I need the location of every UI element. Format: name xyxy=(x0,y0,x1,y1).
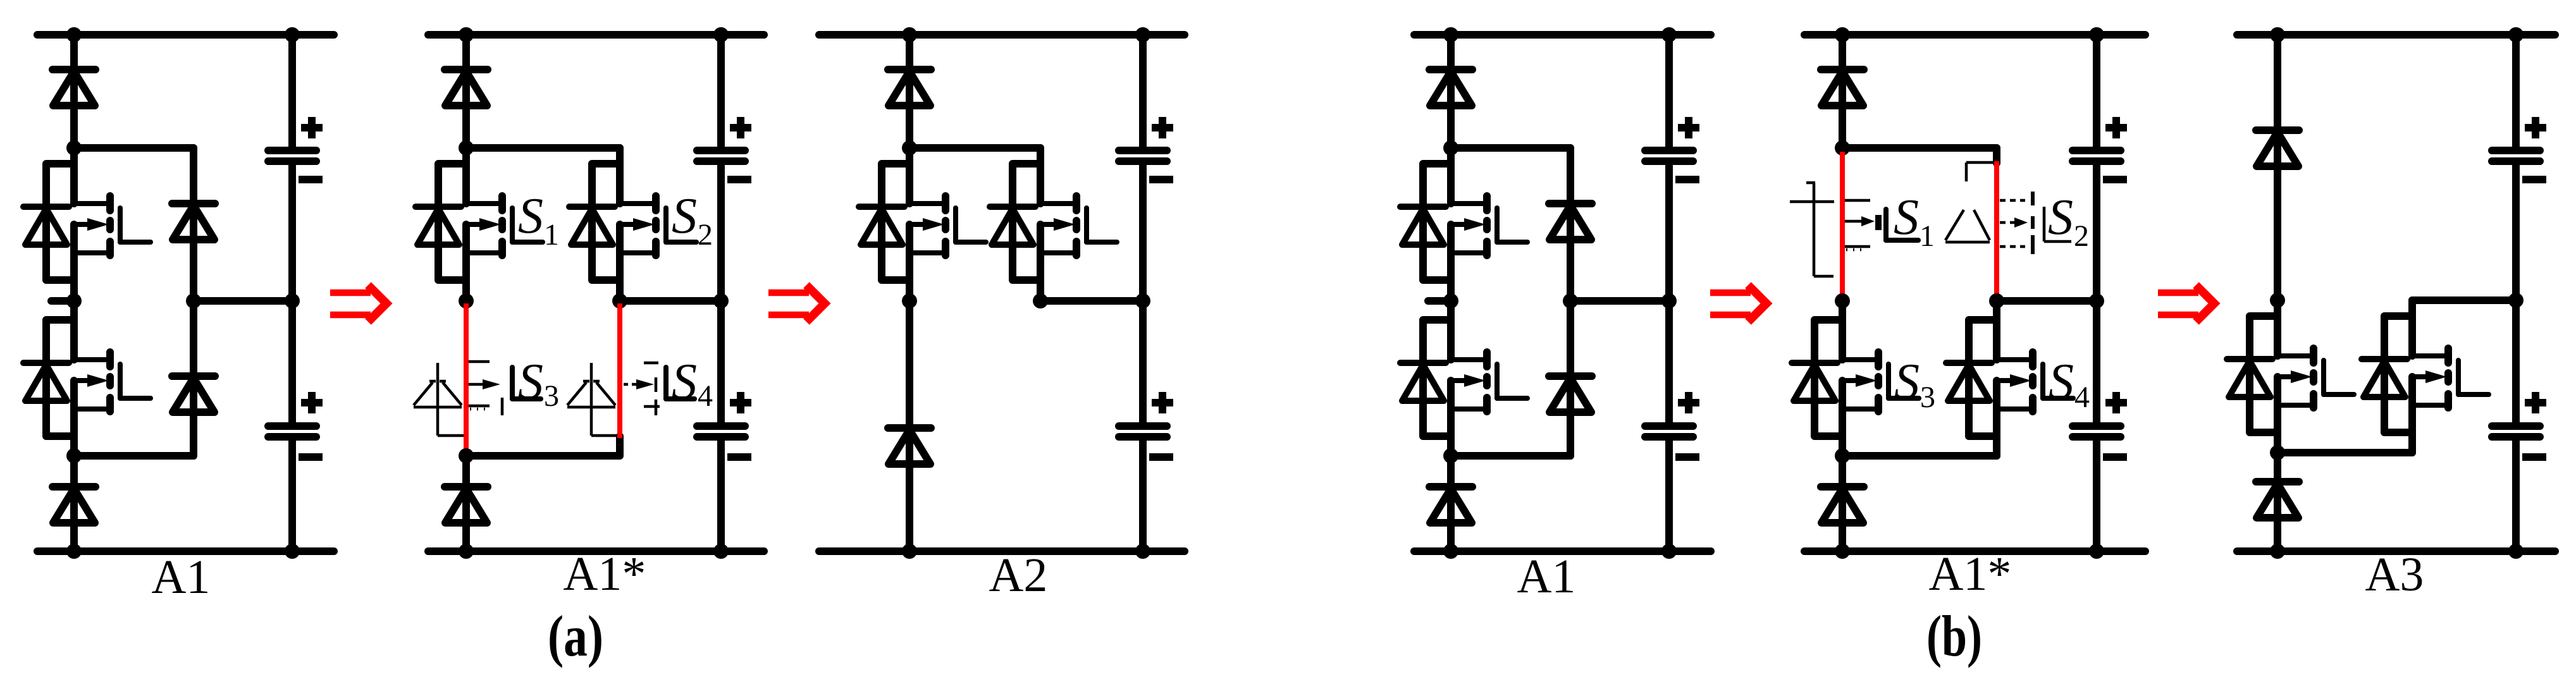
MOSFET cell right (A2) xyxy=(990,148,1117,301)
node mid S2 (A1* (b)) xyxy=(1989,293,2004,308)
node upper (A1* (a)) xyxy=(459,140,474,156)
node bottom-cap (A1* (b)) xyxy=(2089,544,2104,559)
top rail (A1* (a)) xyxy=(428,31,764,39)
node lower (A3) xyxy=(2270,445,2285,460)
node mid-left (A1 b) xyxy=(1443,293,1458,308)
svg-text:(b): (b) xyxy=(1926,604,1982,668)
node top-cap (A1* (b)) xyxy=(2089,27,2104,42)
svg-text:S: S xyxy=(672,354,697,410)
wire capacitor spine (A2) xyxy=(1139,35,1147,150)
wire node to S2 (A1* (a)) xyxy=(466,144,620,152)
svg-text:S: S xyxy=(2049,354,2074,410)
diode right lower (A1 b) xyxy=(1549,376,1592,412)
svg-text:1: 1 xyxy=(544,218,559,252)
svg-text:A1: A1 xyxy=(1517,550,1576,603)
wire node to right branch (A1 b) xyxy=(1451,144,1570,152)
wire node to S2 stub (A1* (b)) xyxy=(1842,144,1997,152)
red short-circuit wire S4 xyxy=(617,303,622,438)
red short-circuit wire S2 xyxy=(1994,161,1999,297)
top rail (A1 a) xyxy=(37,31,334,39)
node top-left (A3) xyxy=(2270,27,2285,42)
node mid-cap (A2) xyxy=(1135,293,1150,308)
node top-cap (A1 a) xyxy=(285,27,300,42)
ghost MOSFET S2 xyxy=(2000,192,2071,254)
wire spine top (A1* (a)) xyxy=(462,35,470,148)
red short-circuit wire S3 xyxy=(464,303,469,452)
node mid-left (A3) xyxy=(2270,293,2285,308)
node upper (A1 b) xyxy=(1443,140,1458,156)
bottom rail (A1* (a)) xyxy=(428,547,764,555)
capacitor upper (A1* (b)) xyxy=(2073,117,2127,180)
svg-text:A1: A1 xyxy=(152,551,211,604)
capacitor lower (A2) xyxy=(1119,392,1173,457)
diode bottom (A1* (a)) xyxy=(445,487,488,523)
node mid-right-branch (A1 a) xyxy=(186,293,201,308)
svg-text:S: S xyxy=(672,188,697,244)
bottom rail (A2) xyxy=(819,547,1185,555)
wire capacitor spine (A1* (a)) xyxy=(717,35,725,150)
svg-text:3: 3 xyxy=(544,379,559,413)
wire capacitor spine (A1 b) xyxy=(1665,35,1673,150)
svg-text:A1*: A1* xyxy=(564,547,646,601)
bottom rail (A1 a) xyxy=(37,547,334,555)
svg-text:S: S xyxy=(1894,190,1919,245)
wire cell2 top to capacitor (A3) xyxy=(2412,296,2516,304)
wire mid to capacitor (A1* (a)) xyxy=(620,297,721,305)
AC terminal stub (A1 b) xyxy=(1428,297,1451,305)
node bottom-left (A2) xyxy=(902,544,917,559)
node mid-right-branch (A1 b) xyxy=(1563,293,1578,308)
node bottom-cap (A1 a) xyxy=(285,544,300,559)
top rail (A3) xyxy=(2237,31,2555,39)
node bottom-cap (A2) xyxy=(1135,544,1150,559)
wire spine top (A2) xyxy=(906,35,913,148)
node bottom-cap (A3) xyxy=(2508,544,2524,559)
wire bottom join (A3) xyxy=(2277,449,2412,456)
node top-cap (A3) xyxy=(2508,27,2524,42)
node lower (A1* (a)) xyxy=(459,448,474,463)
arrow A1* to A2 xyxy=(768,285,825,322)
MOSFET cell upper (A1 b) xyxy=(1400,148,1527,301)
wire spine top (A1* (b)) xyxy=(1839,35,1846,148)
node mid S2 (A1* (a)) xyxy=(612,293,627,308)
node mid-cap (A1* (a)) xyxy=(713,293,729,308)
node top-left (A2) xyxy=(902,27,917,42)
node bottom-cap (A1* (a)) xyxy=(713,544,729,559)
node mid S1 (A1* (b)) xyxy=(1835,293,1850,308)
diode right upper (A1 a) xyxy=(172,204,215,240)
node top-cap (A1 b) xyxy=(1661,27,1677,42)
capacitor upper C1 (A1 b) xyxy=(1645,117,1699,180)
svg-text:2: 2 xyxy=(698,218,713,252)
diode top (A1 a) xyxy=(52,70,96,106)
node mid-right (A2) xyxy=(1033,293,1048,308)
node upper (A1* (b)) xyxy=(1835,140,1850,156)
wire spine upper (A3) xyxy=(2274,35,2281,301)
wire right branch lower (A1 a) xyxy=(190,301,197,456)
diode right lower (A1 a) xyxy=(172,376,215,412)
wire mid to capacitor (A1 a) xyxy=(194,297,292,305)
wire spine bottom (A3) xyxy=(2274,453,2281,551)
MOSFET cell left (A3) xyxy=(2227,300,2354,453)
wire spine top (A1 a) xyxy=(70,35,78,148)
wire right branch upper (A1 b) xyxy=(1567,148,1574,301)
wire lower branch join (A1 a) xyxy=(74,452,194,460)
AC terminal stub (A1 a) xyxy=(51,297,74,305)
capacitor upper (A3) xyxy=(2492,117,2546,180)
node bottom-left (A1* (b)) xyxy=(1835,544,1850,559)
svg-text:4: 4 xyxy=(2074,381,2090,414)
diode top (A1* (b)) xyxy=(1821,70,1864,106)
capacitor lower C2 (A1 a) xyxy=(268,392,323,457)
wire capacitor spine (A1* (b)) xyxy=(2093,35,2100,150)
node top-cap (A2) xyxy=(1135,27,1150,42)
ghost body-diode of S2 xyxy=(1945,162,1995,242)
svg-text:A3: A3 xyxy=(2365,548,2424,601)
diode bottom (A1* (b)) xyxy=(1821,487,1864,523)
svg-text:A1*: A1* xyxy=(1929,547,2012,601)
wire lower branch join (A1 b) xyxy=(1451,452,1570,460)
capacitor lower (A1* (a)) xyxy=(697,392,751,457)
diode top (A1 b) xyxy=(1429,70,1472,106)
MOSFET cell right (A3) xyxy=(2362,300,2489,453)
ghost body-diode of S4 xyxy=(567,363,620,436)
wire spine bottom (A1* (b)) xyxy=(1839,456,1846,551)
wire spine top (A1 b) xyxy=(1447,35,1455,148)
diode upper (A3) xyxy=(2256,130,2299,166)
node bottom-cap (A1 b) xyxy=(1661,544,1677,559)
ghost MOSFET S4 xyxy=(624,363,694,415)
diode right upper (A1 b) xyxy=(1549,204,1592,240)
node top-cap (A1* (a)) xyxy=(713,27,729,42)
node mid-cap (A1* (b)) xyxy=(2089,293,2104,308)
svg-text:S: S xyxy=(1894,354,1920,410)
node mid-cap (A3) xyxy=(2508,293,2524,308)
diode bottom (A1 b) xyxy=(1429,487,1472,523)
wire S4 bottom join xyxy=(1842,452,1997,460)
wire spine bottom (A1* (a)) xyxy=(462,456,470,551)
node upper (A1 a) xyxy=(66,140,82,156)
wire right branch lower (A1 b) xyxy=(1567,301,1574,456)
ghost MOSFET S1 xyxy=(1844,200,1918,250)
node mid-left (A2) xyxy=(902,293,917,308)
bottom rail (A3) xyxy=(2237,547,2555,555)
MOSFET cell upper (A1 a) xyxy=(23,148,151,301)
wire spine bottom (A1 a) xyxy=(70,456,78,551)
node top-left (A1 a) xyxy=(66,27,82,42)
node lower (A1 a) xyxy=(66,448,82,463)
ghost body-diode of S3 xyxy=(414,363,466,436)
svg-text:2: 2 xyxy=(2074,219,2089,253)
wire S4 bottom corner xyxy=(466,436,620,456)
node bottom-left (A1 a) xyxy=(66,544,82,559)
wire mid to capacitor (A2) xyxy=(1040,297,1143,305)
svg-text:S: S xyxy=(518,354,543,410)
MOSFET cell left (A2) xyxy=(859,148,986,301)
node top-left (A1* (a)) xyxy=(459,27,474,42)
node top-left (A1* (b)) xyxy=(1835,27,1850,42)
node lower (A1 b) xyxy=(1443,448,1458,463)
node upper (A2) xyxy=(902,140,917,156)
top rail (A2) xyxy=(819,31,1185,39)
arrow A1 to A1* (b) xyxy=(1710,285,1766,322)
node mid S1 (A1* (a)) xyxy=(459,293,474,308)
red short-circuit wire S1 xyxy=(1840,152,1845,297)
top rail (A1 b) xyxy=(1414,31,1711,39)
wire mid to capacitor (A1 b) xyxy=(1570,297,1669,305)
svg-text:S: S xyxy=(2048,190,2073,245)
node lower (A1* (b)) xyxy=(1835,448,1850,463)
svg-text:(a): (a) xyxy=(548,604,603,668)
MOSFET cell lower (A1 b) xyxy=(1400,304,1527,456)
wire right branch upper (A1 a) xyxy=(190,148,197,301)
MOSFET cell S1 (A1* (a)) xyxy=(416,148,543,301)
wire node to right branch (A1 a) xyxy=(74,144,194,152)
bottom rail (A1* (b)) xyxy=(1804,547,2145,555)
capacitor lower (A1* (b)) xyxy=(2073,392,2127,457)
MOSFET cell S4 (A1* (b)) xyxy=(1946,304,2073,456)
MOSFET cell S3 (A1* (b)) xyxy=(1792,304,1919,456)
diode bottom (A3) xyxy=(2256,482,2299,518)
wire capacitor spine (A1 a) xyxy=(288,35,296,150)
ghost MOSFET S3 xyxy=(468,362,541,415)
wire spine lower (A2) xyxy=(906,301,913,551)
capacitor lower C2 (A1 b) xyxy=(1645,392,1699,457)
capacitor upper C1 (A1 a) xyxy=(268,117,323,180)
node mid-cap (A1 b) xyxy=(1661,293,1677,308)
wire capacitor spine (A3) xyxy=(2512,35,2520,150)
node top-left (A1 b) xyxy=(1443,27,1458,42)
top rail (A1* (b)) xyxy=(1804,31,2145,39)
svg-text:S: S xyxy=(518,188,543,244)
capacitor lower (A3) xyxy=(2492,392,2546,457)
svg-text:3: 3 xyxy=(1920,381,1935,414)
svg-text:A2: A2 xyxy=(989,549,1048,602)
wire mid to capacitor (A1* (b)) xyxy=(1997,297,2097,305)
diode bottom (A1 a) xyxy=(52,487,96,523)
capacitor upper (A2) xyxy=(1119,117,1173,180)
svg-text:1: 1 xyxy=(1920,219,1935,253)
arrow A1 to A1* (a) xyxy=(330,285,386,322)
node bottom-left (A1* (a)) xyxy=(459,544,474,559)
diode lower (A2) xyxy=(888,428,931,464)
node mid-left (A1 a) xyxy=(66,293,82,308)
svg-text:4: 4 xyxy=(698,379,713,413)
arrow A1* to A3 xyxy=(2158,285,2214,322)
node mid-cap (A1 a) xyxy=(285,293,300,308)
capacitor upper (A1* (a)) xyxy=(697,117,751,180)
node bottom-left (A3) xyxy=(2270,544,2285,559)
wire node to cell2 (A2) xyxy=(909,144,1040,152)
MOSFET cell S2 (A1* (a)) xyxy=(569,148,696,301)
ghost body-diode of S1 xyxy=(1790,183,1834,276)
diode top (A1* (a)) xyxy=(445,70,488,106)
diode top (A2) xyxy=(888,70,931,106)
wire spine bottom (A1 b) xyxy=(1447,456,1455,551)
node bottom-left (A1 b) xyxy=(1443,544,1458,559)
bottom rail (A1 b) xyxy=(1414,547,1711,555)
MOSFET cell lower (A1 a) xyxy=(23,304,151,456)
